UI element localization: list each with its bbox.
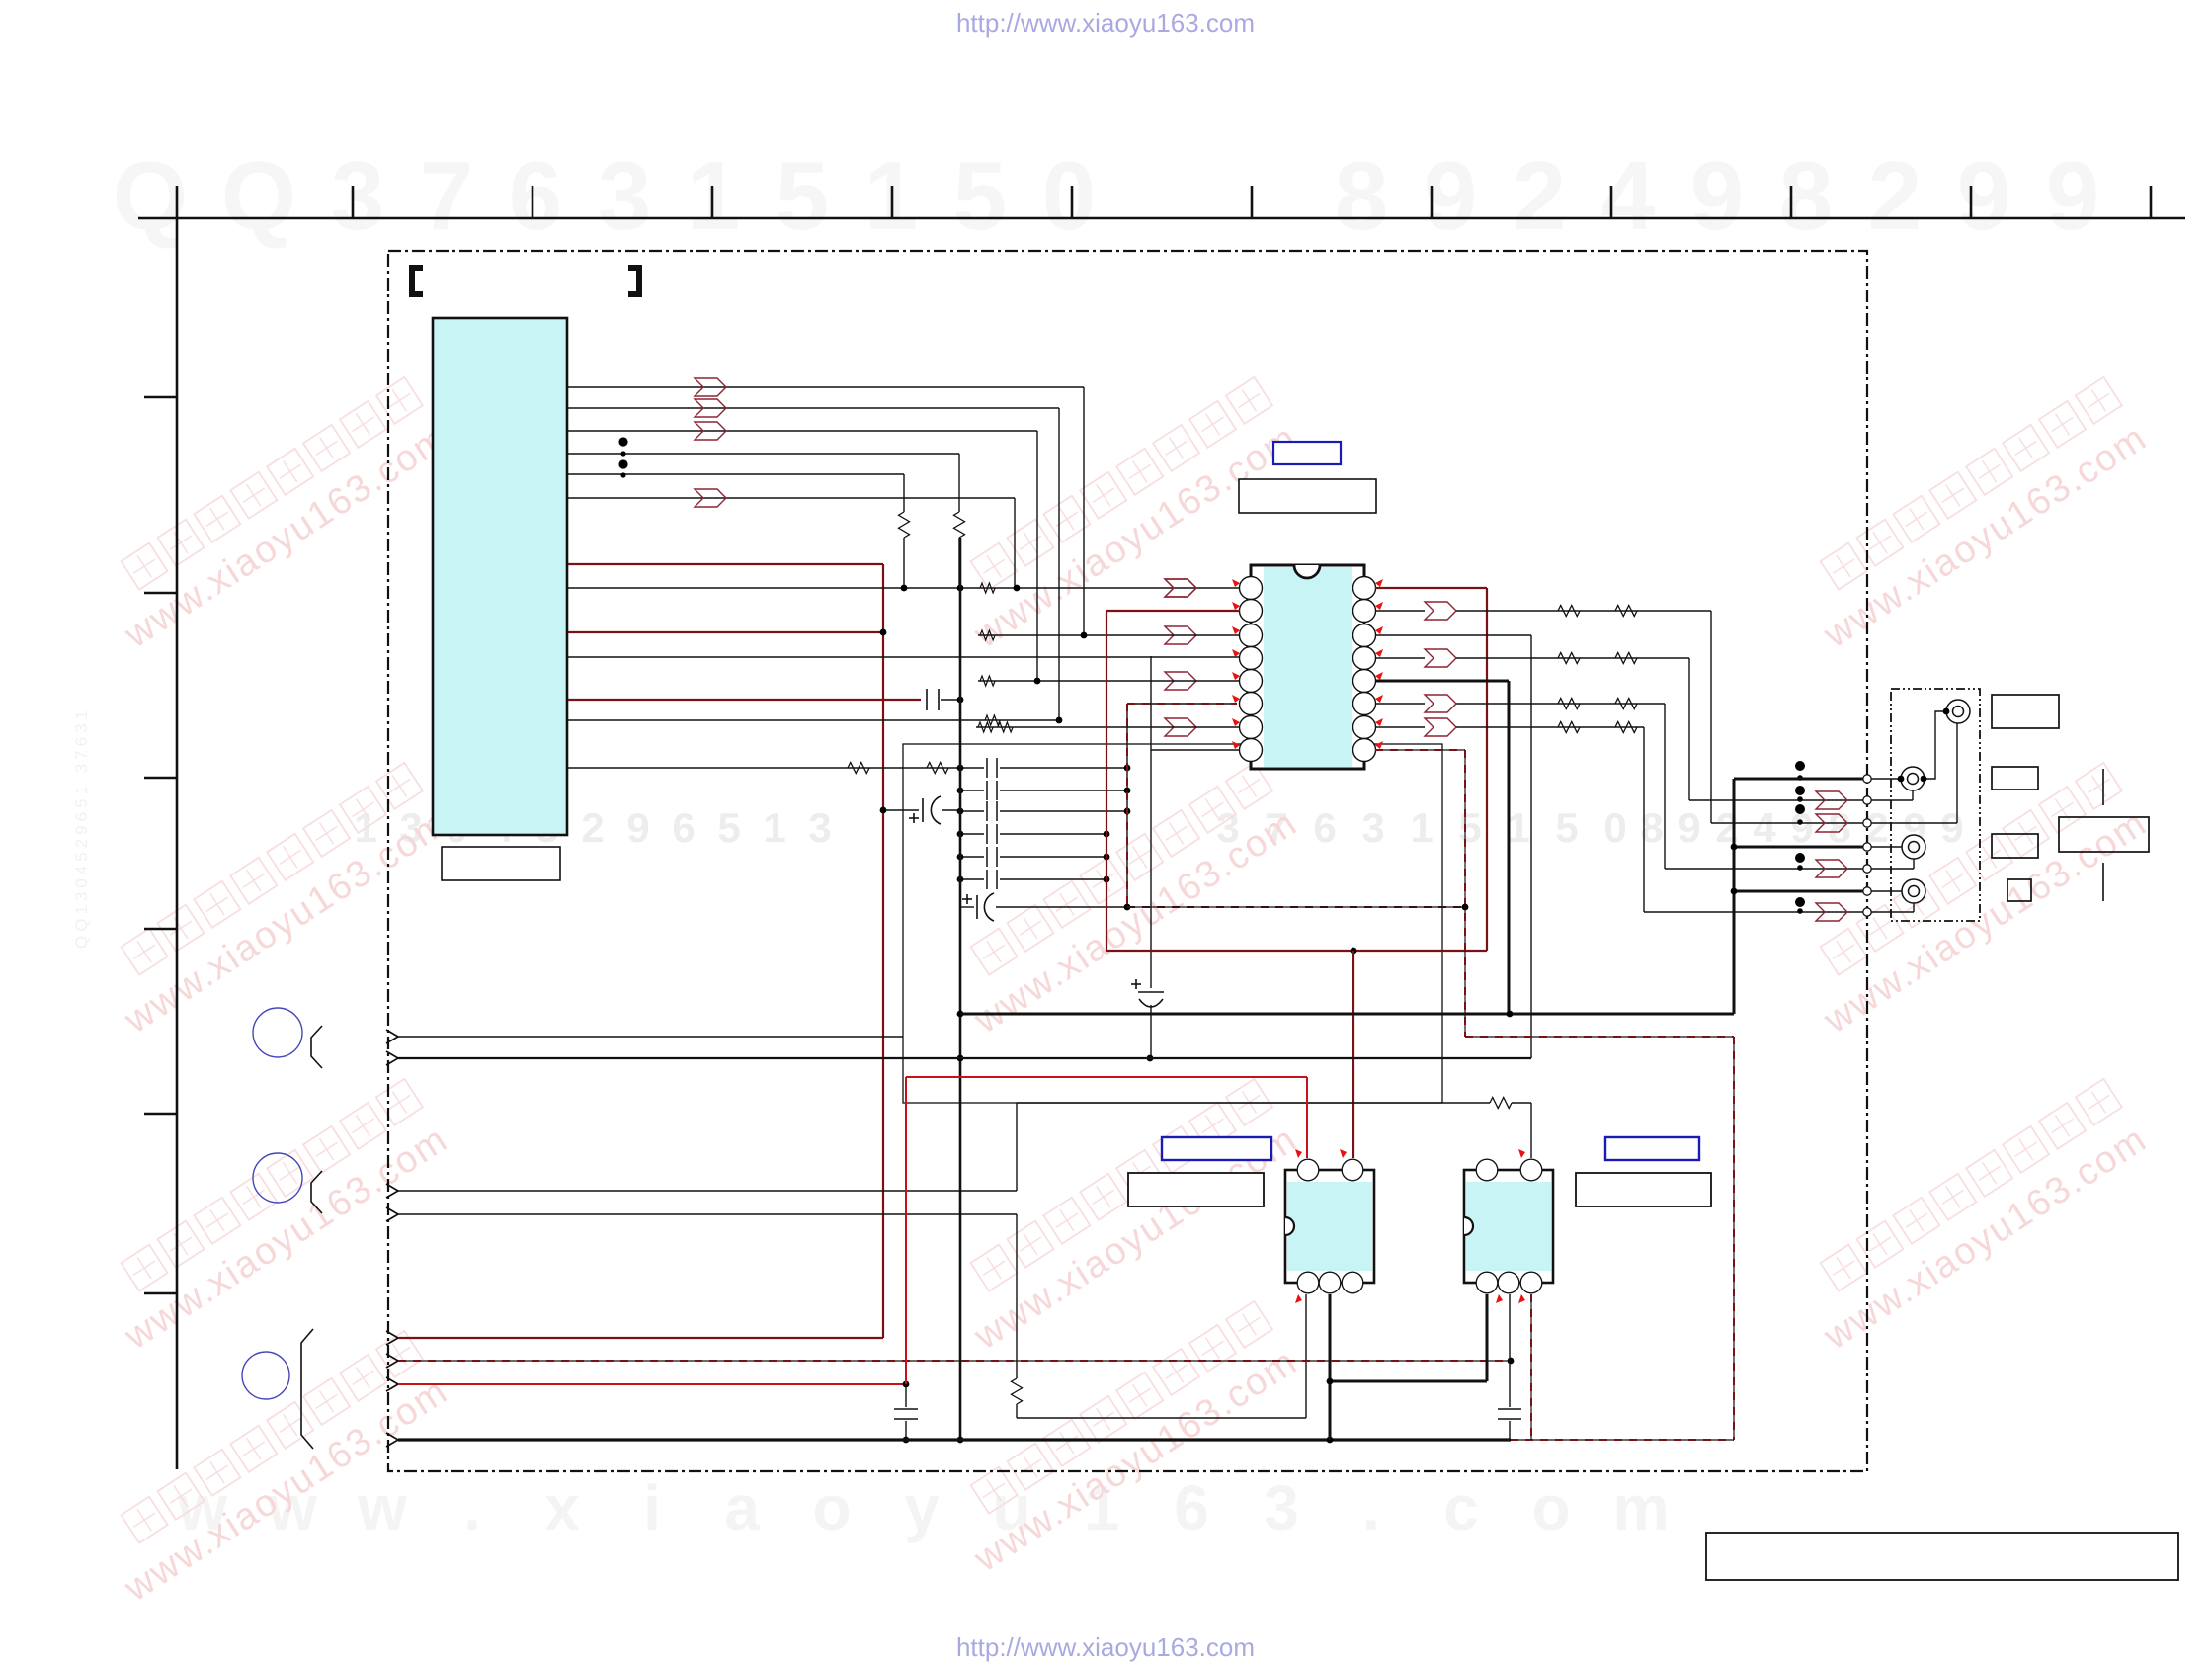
svg-text:o: o [812,1472,851,1543]
svg-text:3: 3 [1361,804,1384,851]
svg-text:y: y [904,1472,940,1543]
svg-text:0: 0 [1603,804,1626,851]
svg-text:5: 5 [1458,804,1481,851]
svg-text:m: m [1613,1472,1670,1543]
svg-text:a: a [724,1472,760,1543]
svg-text:c: c [1443,1472,1479,1543]
svg-text:8: 8 [1828,804,1850,851]
svg-text:9: 9 [1690,141,1745,250]
svg-text:.: . [1362,1472,1380,1543]
svg-text:1: 1 [763,804,785,851]
svg-text:8: 8 [1335,141,1389,250]
svg-text:7: 7 [420,141,474,250]
svg-text:0: 0 [1042,141,1097,250]
svg-text:5: 5 [776,141,830,250]
svg-text:6: 6 [1174,1472,1209,1543]
svg-text:5: 5 [953,141,1008,250]
svg-text:9: 9 [1678,804,1700,851]
svg-text:.: . [463,1472,481,1543]
svg-text:http://www.xiaoyu163.com: http://www.xiaoyu163.com [956,8,1255,38]
svg-text:4: 4 [1601,141,1656,250]
svg-text:QQ1304529651 37631: QQ1304529651 37631 [72,707,91,949]
svg-text:i: i [643,1472,661,1543]
svg-text:8: 8 [1779,141,1834,250]
svg-text:3: 3 [1264,1472,1299,1543]
svg-text:3: 3 [598,141,652,250]
svg-text:w: w [357,1472,407,1543]
svg-text:Q: Q [221,141,296,250]
svg-text:http://www.xiaoyu163.com: http://www.xiaoyu163.com [956,1632,1255,1662]
svg-text:6: 6 [1313,804,1336,851]
svg-text:9: 9 [1957,141,2011,250]
svg-text:1: 1 [1410,804,1433,851]
svg-text:4: 4 [1753,804,1776,851]
svg-text:2: 2 [1513,141,1567,250]
svg-text:2: 2 [581,804,604,851]
svg-text:9: 9 [1940,804,1963,851]
svg-text:2: 2 [1868,141,1923,250]
svg-text:9: 9 [2046,141,2100,250]
svg-text:6: 6 [509,141,563,250]
svg-text:3: 3 [331,141,385,250]
svg-text:9: 9 [626,804,649,851]
svg-text:5: 5 [1555,804,1578,851]
svg-text:3: 3 [808,804,831,851]
svg-text:o: o [1531,1472,1570,1543]
svg-text:5: 5 [717,804,740,851]
svg-text:6: 6 [672,804,695,851]
svg-text:x: x [544,1472,580,1543]
svg-text:1: 1 [1507,804,1529,851]
